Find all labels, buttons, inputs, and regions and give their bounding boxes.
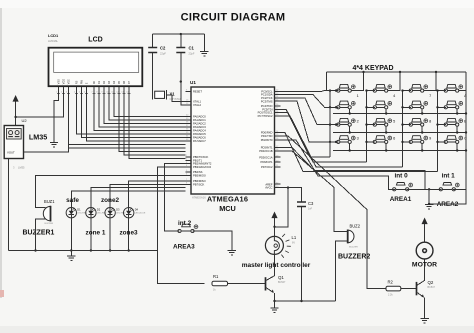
svg-text:PD3/INT1: PD3/INT1	[261, 146, 273, 150]
svg-text:LM35: LM35	[18, 166, 25, 170]
wire int0 to ground stem	[406, 188, 430, 204]
LED D3	[105, 208, 126, 218]
svg-text:master light controller: master light controller	[242, 262, 311, 269]
label master light controller	[242, 262, 311, 269]
keypad button row 1 col 2	[373, 84, 392, 92]
keypad button row 4 col 3	[409, 136, 431, 144]
svg-text:VEE: VEE	[67, 79, 70, 84]
temperature sensor U2 LM35	[4, 118, 47, 170]
wire D4 cathode to rail	[128, 218, 130, 252]
wire keypad column verticals	[329, 89, 446, 171]
svg-text:PA0/ADC0: PA0/ADC0	[193, 115, 206, 119]
keypad button row 1 col 3	[409, 84, 428, 92]
keypad button row 4 col 1	[337, 136, 359, 144]
svg-text:D4: D4	[135, 208, 139, 212]
keypad button row 1 col 1	[337, 84, 356, 92]
svg-text:C3: C3	[308, 201, 314, 206]
keypad button row 2 col 4	[444, 94, 467, 109]
LED D2	[86, 208, 107, 218]
wire trunk to R2	[281, 136, 387, 289]
keypad button row 3 col 2	[373, 118, 395, 126]
svg-text:2: 2	[357, 119, 359, 123]
svg-text:ATMEGA16: ATMEGA16	[192, 196, 206, 200]
svg-text:XTAL2: XTAL2	[193, 103, 202, 107]
svg-text:LM35: LM35	[29, 133, 47, 142]
svg-text:4: 4	[393, 94, 395, 98]
LED D1	[66, 208, 87, 218]
svg-text:Q1: Q1	[278, 275, 284, 280]
svg-text:5: 5	[393, 119, 395, 123]
svg-text:PB3/AIN1/OC0: PB3/AIN1/OC0	[193, 165, 212, 169]
wire int2 to MCU INT2	[165, 164, 186, 231]
push button int0	[393, 183, 413, 191]
svg-text:2.2k: 2.2k	[388, 294, 393, 297]
crystal X1	[153, 90, 182, 101]
label int 0	[395, 173, 409, 180]
svg-text:C1: C1	[189, 46, 195, 51]
keypad button row 2 col 3	[409, 94, 431, 109]
svg-text:6V: 6V	[292, 242, 295, 245]
svg-text:PA7/ADC7: PA7/ADC7	[193, 139, 206, 143]
svg-text:22pF: 22pF	[160, 52, 166, 56]
wire bus LCD data and control to MCU	[77, 97, 186, 159]
svg-text:zone 1: zone 1	[86, 230, 106, 237]
label zone 1	[86, 230, 106, 237]
motor M1	[412, 242, 437, 268]
wire MCU INT0 to int0	[281, 140, 396, 189]
wire int2 to ground	[192, 231, 232, 251]
ground right of caps	[200, 34, 208, 56]
wire ground rail bottom left	[8, 250, 157, 252]
LED D4	[124, 208, 146, 218]
keypad button row 3 col 1	[337, 118, 359, 126]
svg-text:PB5/MOSI: PB5/MOSI	[193, 173, 206, 177]
keypad button row 2 col 2	[373, 94, 395, 109]
svg-text:MOTOR: MOTOR	[412, 262, 437, 269]
svg-text:U1: U1	[190, 80, 196, 85]
svg-text:RS: RS	[75, 80, 78, 84]
svg-text:PD5/OC1A: PD5/OC1A	[259, 155, 273, 159]
keypad button row 2 col 1	[337, 94, 359, 109]
svg-text:int 0: int 0	[395, 173, 409, 180]
keypad button row 4 col 4	[444, 136, 467, 144]
wire crystal to XTAL1	[167, 95, 186, 102]
label safe	[66, 197, 79, 204]
svg-text:VSS: VSS	[57, 79, 60, 84]
label int 2	[178, 220, 192, 227]
svg-text:AVCC: AVCC	[265, 186, 272, 190]
node C1 junction	[180, 80, 182, 82]
svg-text:BUZ2: BUZ2	[350, 224, 361, 229]
svg-text:PA1/ADC1: PA1/ADC1	[193, 118, 206, 122]
svg-text:1nF: 1nF	[308, 208, 313, 211]
svg-text:zone3: zone3	[119, 230, 138, 237]
svg-text:RESET: RESET	[193, 89, 202, 93]
wire LM35 VOUT to MCU	[24, 144, 186, 152]
node +5V junction	[14, 116, 16, 118]
svg-text:RW: RW	[80, 79, 83, 84]
wire AVCC branch to power net	[273, 186, 289, 228]
svg-text:3: 3	[357, 137, 359, 141]
svg-text:PA3/ADC3: PA3/ADC3	[193, 125, 206, 129]
wire MCU PB3 to R1	[158, 167, 205, 284]
wire keypad rail left drop to MCU PC0	[326, 72, 328, 91]
push button int1	[439, 183, 459, 191]
svg-text:PA6/ADC6: PA6/ADC6	[193, 136, 206, 140]
wire keypad row lines	[333, 114, 466, 151]
wire R2 to Q2 base	[401, 288, 416, 290]
ground under int2	[228, 251, 236, 255]
svg-text:PA2/ADC2: PA2/ADC2	[193, 122, 206, 126]
svg-text:PD6/ICP1: PD6/ICP1	[261, 160, 273, 164]
power +5V arrow for LM35	[13, 95, 19, 126]
svg-text:CIRCUIT DIAGRAM: CIRCUIT DIAGRAM	[181, 12, 286, 24]
transistor Q1 BC547	[266, 270, 286, 300]
wire R1 to Q1 base	[228, 283, 266, 285]
wire D1 cathode to rail	[70, 218, 72, 252]
lamp L1	[265, 234, 296, 258]
svg-text:D2: D2	[97, 208, 101, 212]
svg-text:D3: D3	[116, 208, 120, 212]
svg-text:ATMEGA16: ATMEGA16	[207, 195, 248, 204]
svg-text:7: 7	[429, 94, 431, 98]
resistor R2	[386, 280, 401, 297]
svg-text:C2: C2	[160, 46, 166, 51]
svg-text:8: 8	[429, 119, 431, 123]
ground under LED rail	[67, 251, 75, 261]
wire BUZ1 top to MCU	[36, 175, 186, 207]
svg-text:BUZ1: BUZ1	[44, 199, 55, 204]
wire D3 anode to MCU	[110, 184, 185, 207]
svg-text:R1: R1	[213, 274, 219, 279]
wire keypad right terminal drops rows 2-4	[349, 109, 459, 152]
wire LM35 pin3 left rail	[7, 159, 9, 251]
svg-text:PD1/TXD: PD1/TXD	[261, 134, 272, 138]
capacitor C1	[176, 34, 195, 105]
svg-text:PB7/SCK: PB7/SCK	[193, 182, 205, 186]
push button int2	[178, 224, 198, 232]
MCU left pins	[186, 89, 212, 186]
svg-text:9: 9	[429, 137, 431, 141]
svg-text:BC547: BC547	[278, 281, 286, 284]
wire keypad right rail	[465, 72, 467, 189]
svg-text:BUZZER1: BUZZER1	[23, 230, 55, 237]
svg-text:22pF: 22pF	[189, 52, 195, 56]
capacitor C3	[281, 188, 315, 301]
buzzer BUZ2	[338, 224, 370, 261]
wire D2 anode to MCU	[91, 188, 186, 208]
wire int1 right loop to ground	[428, 189, 466, 205]
svg-text:CRYSTAL: CRYSTAL	[170, 97, 182, 101]
svg-text:PA4/ADC4: PA4/ADC4	[193, 129, 206, 133]
svg-text:BUZZER: BUZZER	[349, 247, 358, 249]
ground under Q1	[270, 301, 278, 312]
label AREA1	[390, 196, 412, 203]
svg-text:LED-RED: LED-RED	[116, 213, 126, 215]
4x4 keypad	[352, 65, 393, 72]
svg-text:PD4/OC1B: PD4/OC1B	[259, 149, 273, 153]
svg-text:D1: D1	[77, 208, 81, 212]
svg-text:LED-BLUE: LED-BLUE	[135, 213, 146, 215]
wire LCD VSS to ground	[54, 97, 59, 143]
svg-text:6: 6	[393, 137, 395, 141]
svg-text:R2: R2	[388, 280, 394, 285]
svg-text:LCD: LCD	[88, 37, 102, 44]
power arrow for lamp	[271, 212, 277, 237]
ground under Q2	[420, 319, 428, 323]
svg-text:AREF: AREF	[265, 182, 273, 186]
wire caps top rail	[153, 33, 205, 35]
svg-text:PC3/TMS: PC3/TMS	[261, 99, 273, 103]
svg-text:BC547: BC547	[428, 286, 436, 289]
svg-text:1: 1	[357, 94, 359, 98]
svg-text:LCD1: LCD1	[48, 33, 59, 38]
LCD display LCD1	[48, 33, 142, 97]
wire MCU INT1 to int1	[281, 148, 442, 190]
label AREA2	[437, 201, 459, 208]
svg-text:PD7/OC2: PD7/OC2	[261, 165, 273, 169]
svg-text:AREA3: AREA3	[173, 244, 195, 251]
wire Q1 emitter ground net	[273, 300, 335, 302]
svg-text:4*4 KEYPAD: 4*4 KEYPAD	[352, 65, 393, 72]
buzzer BUZ1	[23, 199, 56, 237]
wire LCD VEE	[69, 97, 186, 148]
MCU right pins	[258, 89, 281, 189]
transistor Q2 BC547	[417, 259, 436, 319]
wire D3 cathode to rail	[109, 218, 111, 252]
wire D4 anode to MCU	[129, 181, 186, 208]
ground between int0 int1	[425, 205, 433, 209]
svg-text:PC7/TOSC2: PC7/TOSC2	[258, 114, 273, 118]
keypad button row 1 col 4	[444, 84, 463, 92]
svg-text:BUZZER: BUZZER	[45, 223, 54, 225]
label AREA3	[173, 244, 195, 251]
wire MCU PD4 to BUZ2	[281, 151, 348, 232]
label zone3	[119, 230, 138, 237]
svg-text:safe: safe	[66, 197, 79, 204]
svg-text:U2: U2	[22, 118, 28, 123]
wire D2 cathode to rail	[90, 218, 92, 252]
label int 1	[442, 173, 456, 180]
svg-text:XTAL1: XTAL1	[193, 100, 202, 104]
keypad button row 4 col 2	[373, 136, 395, 144]
svg-text:int 1: int 1	[442, 173, 456, 180]
svg-text:AREA1: AREA1	[390, 196, 412, 203]
ground under LCD	[50, 143, 58, 147]
svg-text:zone2: zone2	[101, 197, 120, 204]
wire lamp to Q1 collector	[274, 254, 276, 270]
keypad button row 3 col 3	[409, 118, 431, 126]
wire BUZ2 bottom to ground net	[336, 241, 348, 301]
capacitor C2	[148, 34, 166, 90]
wire keypad top rail	[327, 71, 467, 73]
svg-text:VOUT: VOUT	[7, 151, 15, 155]
wire MCU to keypad columns trunks	[281, 109, 438, 171]
svg-text:BUZZER2: BUZZER2	[338, 254, 370, 261]
wire LCD VDD to +5V rail	[16, 97, 64, 118]
power arrow for motor	[422, 218, 428, 243]
resistor R1	[212, 274, 228, 292]
label zone2	[101, 197, 120, 204]
microcontroller U1 ATMEGA16	[190, 80, 275, 213]
svg-text:MCU: MCU	[219, 204, 236, 213]
svg-text:LM016L: LM016L	[48, 39, 59, 43]
wire D1 anode to MCU	[71, 191, 185, 208]
svg-text:L1: L1	[292, 235, 297, 240]
svg-text:PD2/INT0: PD2/INT0	[261, 138, 273, 142]
wire BUZ1 bottom to rail	[34, 219, 45, 252]
wire keypad row1 drops from rail	[351, 71, 466, 91]
keypad button row 3 col 4	[444, 118, 467, 126]
svg-text:Q2: Q2	[428, 280, 434, 285]
svg-text:VDD: VDD	[62, 79, 65, 84]
svg-text:PA5/ADC5: PA5/ADC5	[193, 132, 206, 136]
wire MCU to keypad row nets staircase	[281, 89, 338, 143]
